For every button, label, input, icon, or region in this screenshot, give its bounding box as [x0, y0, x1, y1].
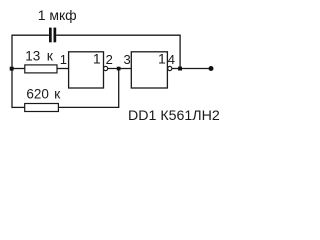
wire 13k left lead: [12, 68, 25, 70]
resistor R1 13 к: [25, 47, 57, 73]
wire bottom horizontal right of R2: [58, 106, 119, 108]
wire left rail vertical: [11, 35, 13, 109]
svg-text:DD1 К561ЛН2: DD1 К561ЛН2: [128, 108, 220, 124]
resistor R2 620 к: [25, 86, 61, 112]
svg-text:2: 2: [106, 52, 113, 67]
wire top-left horizontal: [12, 34, 49, 36]
inverter bubble gate1: [104, 66, 108, 70]
svg-text:1: 1: [93, 51, 101, 67]
svg-text:к: к: [47, 47, 54, 63]
node C junction output feedback: [178, 67, 182, 71]
inverter U1b DD1.2: [131, 51, 167, 88]
wire gate1 output to gate2 input: [108, 68, 132, 70]
capacitor C1 1 мкф: [38, 7, 77, 43]
inverter bubble gate2: [168, 66, 172, 70]
wire node B vertical down: [118, 69, 120, 108]
svg-text:3: 3: [124, 52, 131, 67]
wire bottom-left horizontal to R2: [12, 106, 25, 108]
wire gate2 output to terminal: [172, 68, 210, 70]
svg-text:13: 13: [25, 48, 40, 63]
svg-text:4: 4: [168, 52, 175, 67]
node B junction between gates: [117, 67, 121, 71]
wire 13k right lead: [57, 68, 69, 70]
wire top-right horizontal: [56, 34, 181, 36]
terminal output dot: [209, 66, 214, 71]
svg-text:620: 620: [26, 87, 49, 102]
svg-text:1: 1: [158, 51, 166, 67]
svg-text:к: к: [54, 86, 61, 102]
svg-text:1 мкф: 1 мкф: [38, 7, 77, 23]
node A junction on left rail: [10, 67, 14, 71]
svg-text:1: 1: [60, 52, 67, 67]
inverter U1a DD1.1: [69, 51, 104, 88]
wire feedback vertical: [179, 35, 181, 68]
